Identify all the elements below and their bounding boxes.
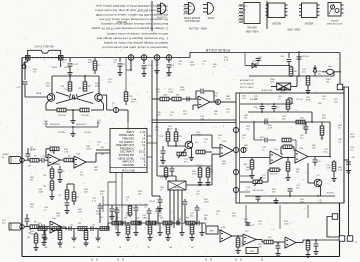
- wire link v3: [245, 205, 247, 226]
- diode D1: [252, 61, 256, 69]
- jack J2: [2, 220, 24, 230]
- svg-text:R22: R22: [160, 136, 163, 138]
- svg-text:R6: R6: [44, 186, 46, 188]
- resistor stub RBv12: [189, 223, 194, 241]
- capacitor C25: [288, 189, 293, 196]
- labels top inner: [250, 99, 321, 105]
- resistor R40: [286, 98, 293, 112]
- wire ic5 top pin: [157, 176, 176, 181]
- svg-text:2. Voltage for guidance measur: 2. Voltage for guidance measured with VT…: [91, 27, 168, 31]
- resistor R12: [57, 108, 67, 117]
- wire vert VB: [156, 60, 158, 176]
- svg-text:COLLECTOR: COLLECTOR: [182, 8, 195, 10]
- resistor RB6: [131, 221, 140, 225]
- svg-text:C54: C54: [178, 219, 181, 221]
- svg-text:R4: R4: [68, 156, 70, 158]
- wire power h2: [249, 75, 315, 77]
- footswitch SW1: [23, 47, 70, 70]
- svg-text:R101: R101: [326, 79, 332, 81]
- wire q1 collector: [51, 91, 53, 94]
- resistor RB10: [264, 237, 273, 244]
- resistor R13: [80, 108, 90, 117]
- variable resistor VR2 depth: [253, 177, 265, 192]
- capacitor C110: [41, 230, 46, 246]
- relay box RY: [277, 83, 291, 95]
- resistor R102: [282, 138, 296, 142]
- capacitor C24: [313, 157, 321, 167]
- svg-text:R109 470K: R109 470K: [76, 124, 86, 126]
- wire r14: [125, 57, 127, 90]
- wire chain out: [307, 239, 339, 241]
- wire below table h: [103, 196, 148, 212]
- capacitor C84: [187, 97, 192, 102]
- svg-text:R107: R107: [138, 191, 143, 193]
- connector node P5: [241, 147, 246, 152]
- wire ic7 out: [256, 240, 264, 243]
- svg-text:R11: R11: [88, 86, 91, 88]
- IC pinout SIP A8084: [238, 3, 260, 32]
- labels below table: [100, 191, 147, 209]
- resistor R21: [172, 95, 181, 101]
- svg-text:VIEW : GRN: VIEW : GRN: [287, 28, 300, 30]
- svg-text:.0056: .0056: [168, 92, 174, 94]
- svg-text:33K: 33K: [222, 164, 226, 166]
- ground stub GB4: [95, 229, 100, 242]
- svg-text:R108 470K: R108 470K: [50, 124, 60, 126]
- svg-text:R56: R56: [160, 218, 163, 220]
- svg-text:C93 10u: C93 10u: [58, 132, 65, 134]
- label output: [326, 193, 335, 195]
- svg-text:100K: 100K: [284, 224, 289, 226]
- wire power to border: [315, 72, 334, 76]
- wire ic4b out: [232, 235, 243, 237]
- svg-text:10K: 10K: [232, 216, 236, 218]
- wire table bottom leads: [108, 172, 122, 230]
- svg-text:22K: 22K: [84, 192, 88, 194]
- svg-text:R10: R10: [61, 86, 64, 88]
- svg-text:56K: 56K: [95, 86, 99, 88]
- svg-text:R59: R59: [268, 237, 271, 239]
- wire inner h2: [248, 111, 312, 113]
- svg-text:R54: R54: [124, 218, 127, 220]
- resistor RB11 vert: [305, 240, 310, 258]
- svg-text:100K: 100K: [86, 149, 91, 151]
- svg-text:C22 .02: C22 .02: [296, 99, 303, 101]
- resistor RB9: [186, 221, 195, 225]
- svg-text:56K: 56K: [46, 86, 50, 88]
- svg-text:INPUT 2: INPUT 2: [238, 8, 245, 10]
- ground stub GB5: [115, 223, 120, 236]
- pad border J4: [327, 214, 340, 237]
- capacitor C20: [254, 104, 265, 112]
- IC11 small box: [246, 248, 258, 254]
- wire mid h: [160, 165, 212, 167]
- svg-text:47K: 47K: [88, 62, 92, 64]
- svg-text:GND 3: GND 3: [238, 12, 244, 14]
- svg-text:DEPTH 50K: DEPTH 50K: [253, 190, 265, 192]
- wire q5 leads: [308, 163, 320, 196]
- svg-text:1M: 1M: [30, 180, 33, 182]
- op-amp IC2b: [220, 141, 233, 157]
- svg-text:100K: 100K: [166, 76, 171, 78]
- capacitor C5: [39, 156, 48, 163]
- svg-text:047: 047: [191, 247, 194, 249]
- capacitor CB3: [123, 221, 125, 226]
- wire v from h3: [254, 122, 330, 130]
- svg-text:R11A: R11A: [52, 66, 57, 69]
- wire bus step up: [190, 53, 340, 58]
- IC6 pin table: [110, 129, 147, 173]
- resistor R110 vert: [27, 232, 39, 251]
- resistor R1 drop: [93, 58, 100, 75]
- svg-text:R2: R2: [34, 156, 36, 158]
- resistor RB12 vert: [235, 236, 240, 254]
- resistor R105 vert: [128, 205, 132, 217]
- svg-text:R23: R23: [178, 136, 181, 138]
- svg-text:C11 4.7: C11 4.7: [78, 88, 84, 90]
- connector node TP1: [113, 107, 118, 112]
- svg-text:10K: 10K: [78, 212, 82, 214]
- page artifact marks: [92, 259, 262, 261]
- svg-text:AC ADAPTOR: AC ADAPTOR: [240, 79, 254, 82]
- capacitor CB4: [139, 221, 141, 226]
- svg-text:47K: 47K: [158, 216, 162, 218]
- svg-text:R9: R9: [34, 222, 36, 224]
- svg-text:2.2K: 2.2K: [44, 124, 49, 126]
- svg-text:EXT DC JACK: EXT DC JACK: [240, 86, 254, 89]
- inner box border: [236, 93, 344, 203]
- wire ic2a in: [182, 99, 198, 110]
- svg-text:BASE: BASE: [182, 12, 188, 15]
- capacitor CB7: [197, 221, 199, 226]
- wire inner h3: [240, 121, 330, 123]
- resistor R47 vert: [285, 158, 290, 181]
- component value labels: [30, 57, 355, 249]
- svg-text:C52: C52: [116, 218, 119, 220]
- resistor R9: [30, 222, 39, 229]
- capacitor C27: [160, 146, 165, 164]
- wire q2 out: [102, 95, 113, 110]
- view yellow label: [188, 27, 207, 30]
- wire ic1a out: [60, 159, 64, 161]
- wire ic1b out: [86, 153, 110, 162]
- wire double h2: [152, 122, 236, 124]
- svg-text:R13 10K: R13 10K: [81, 115, 89, 117]
- ground stub GB9: [157, 223, 162, 236]
- svg-text:R52: R52: [78, 223, 81, 225]
- wire ic2b out: [232, 150, 234, 152]
- resistor R7 vert: [59, 188, 70, 214]
- wire c28: [152, 195, 160, 197]
- wire double h1: [152, 119, 236, 121]
- transistor pinout 2SC945 bottom view: [182, 2, 200, 21]
- capacitor C28 el: [149, 196, 163, 212]
- svg-text:NOTES: NOTES: [117, 20, 127, 24]
- svg-text:M5218P: M5218P: [304, 22, 313, 24]
- svg-text:M 5 2 3 (B): M 5 2 3 (B): [122, 169, 135, 173]
- capacitor C40 vert: [280, 53, 291, 66]
- wire j1 out: [24, 148, 36, 160]
- svg-text:R12 10K: R12 10K: [58, 115, 66, 117]
- svg-text:C41 100: C41 100: [301, 56, 309, 58]
- svg-text:R46: R46: [244, 164, 247, 166]
- svg-text:1M: 1M: [28, 166, 31, 168]
- svg-text:470K: 470K: [306, 100, 311, 102]
- ground stub GB11: [179, 223, 184, 236]
- capacitor C90 vert: [109, 205, 114, 220]
- capacitor C26 fb: [196, 89, 214, 102]
- capacitor CB6: [177, 221, 179, 226]
- svg-text:NC 4: NC 4: [238, 15, 242, 17]
- svg-text:M5218P: M5218P: [272, 22, 281, 24]
- svg-text:4.7K: 4.7K: [224, 60, 229, 62]
- resistor R14 vert: [124, 90, 132, 105]
- svg-text:C50: C50: [70, 225, 73, 227]
- wire lfo feeds: [52, 76, 99, 94]
- capacitor C42: [279, 87, 287, 92]
- wire vert VA: [151, 60, 153, 196]
- wire lfo bottom left: [46, 101, 57, 110]
- wire opamp chain: [240, 157, 330, 159]
- op-amp IC1b: [74, 154, 86, 169]
- resistor stub RBv8: [147, 223, 152, 241]
- svg-text:TA7136: TA7136: [174, 186, 182, 189]
- transistor Q1: [47, 94, 55, 102]
- svg-text:4.7: 4.7: [73, 247, 76, 249]
- wire link v5: [307, 205, 309, 218]
- svg-text:2 IN: 2 IN: [155, 8, 159, 10]
- capacitor stub up CU0: [98, 203, 103, 223]
- pad right border J5: [337, 84, 343, 90]
- resistor R28 vert: [164, 166, 168, 180]
- capacitor CB9 vert: [313, 240, 318, 255]
- ground stub GB2: [71, 229, 76, 242]
- wire right border lower: [340, 87, 345, 257]
- capacitor stub up CU3: [147, 208, 152, 223]
- svg-text:10K: 10K: [156, 92, 160, 94]
- wire inner v right: [288, 98, 312, 122]
- resistor R24: [196, 150, 212, 154]
- op-amp IC9: [285, 237, 308, 248]
- wire lfo top rail: [52, 75, 99, 77]
- resistor RB8: [163, 221, 172, 225]
- wire inner misc1: [254, 130, 262, 140]
- IC10 box: [205, 223, 222, 234]
- capacitor C10 cross: [56, 89, 93, 104]
- svg-text:OUTPUT: OUTPUT: [326, 193, 335, 195]
- resistor stub RBv3: [83, 229, 88, 247]
- resistor R43: [296, 118, 305, 124]
- capacitor C2 drop: [117, 58, 125, 76]
- notes text block (rotated): [91, 4, 168, 50]
- wire chain to pads: [355, 242, 358, 244]
- capacitor C7: [39, 224, 47, 229]
- resistor R103 vert: [320, 122, 324, 140]
- svg-text:4.7K: 4.7K: [268, 128, 273, 130]
- wire top supply bus: [22, 57, 190, 59]
- wire link v4: [279, 205, 281, 229]
- label level: [351, 157, 354, 159]
- svg-text:R33: R33: [101, 147, 104, 149]
- svg-text:4.7K: 4.7K: [338, 170, 343, 172]
- capacitor C1 drop: [67, 58, 78, 76]
- svg-text:100K: 100K: [350, 137, 355, 139]
- svg-text:R7: R7: [59, 195, 61, 197]
- capacitor C86: [265, 138, 276, 143]
- svg-text:1M: 1M: [326, 82, 329, 84]
- svg-text:with no signal input, control: with no signal input, control at center …: [106, 32, 168, 36]
- pad output J7: [347, 235, 353, 241]
- svg-text:10K: 10K: [312, 148, 316, 150]
- wire lfo bottom right: [91, 101, 104, 110]
- svg-text:C24: C24: [317, 161, 320, 163]
- resistor R3 fb: [46, 147, 59, 158]
- resistor R6 vert: [44, 175, 55, 200]
- svg-text:10K: 10K: [160, 160, 164, 162]
- svg-text:033: 033: [147, 247, 150, 249]
- svg-text:22K: 22K: [300, 202, 304, 204]
- svg-text:R45 10K: R45 10K: [270, 174, 278, 176]
- svg-text:1u: 1u: [126, 200, 128, 202]
- svg-text:M5223L: M5223L: [330, 19, 339, 21]
- svg-text:C53: C53: [136, 218, 139, 220]
- op-amp IC2a: [198, 93, 210, 108]
- resistor R45: [268, 168, 281, 176]
- wire ic5 pins down: [170, 190, 182, 228]
- svg-text:IC5: IC5: [160, 177, 163, 179]
- resistor R104 vert: [331, 160, 336, 182]
- resistor R44 feedback: [281, 145, 295, 154]
- op-amp IC3b: [295, 148, 308, 163]
- resistor R60 vert: [289, 66, 297, 77]
- svg-text:C28 47: C28 47: [149, 201, 155, 203]
- svg-text:R21: R21: [176, 95, 179, 97]
- transistor Q2: [95, 94, 103, 102]
- pcb number label: [205, 48, 230, 52]
- transistor pinout 2S780 bottom view: [203, 2, 214, 18]
- wire right border upper: [339, 53, 341, 85]
- wire r20 left: [152, 98, 182, 100]
- capacitor stub up CU4: [156, 206, 161, 223]
- svg-text:GUITAR: GUITAR: [2, 153, 9, 156]
- svg-text:.0082: .0082: [38, 192, 44, 194]
- svg-text:EMITTER: EMITTER: [182, 4, 191, 6]
- LED indicator: [322, 66, 333, 74]
- label rate: [36, 92, 42, 95]
- svg-text:22K: 22K: [157, 115, 161, 117]
- svg-text:10K: 10K: [183, 114, 187, 116]
- svg-text:C91: C91: [126, 197, 129, 199]
- svg-text:1 GND: 1 GND: [155, 5, 162, 7]
- svg-text:47K: 47K: [244, 222, 248, 224]
- capacitor stub up CU2: [134, 205, 139, 223]
- svg-text:100K: 100K: [196, 135, 201, 137]
- svg-text:VIEW : YELLOW: VIEW : YELLOW: [188, 27, 207, 30]
- svg-text:R42: R42: [318, 103, 321, 105]
- wire ic2b in: [212, 148, 220, 160]
- rate pot: [17, 62, 48, 97]
- capacitor stub up CU1: [115, 207, 120, 223]
- wire inner right exit: [344, 160, 351, 174]
- capacitor CB1: [69, 226, 71, 231]
- op-amp IC4b: [220, 227, 232, 242]
- svg-text:TO-92 P/N: TO-92 P/N: [156, 16, 167, 18]
- svg-text:Improvement in circuit, parts: Improvement in circuit, parts and constr…: [102, 46, 168, 50]
- wire tp1 right: [119, 110, 128, 122]
- resistor RB2: [52, 227, 61, 231]
- variable resistor VR1: [177, 149, 186, 158]
- op-amp IC3a: [270, 149, 283, 164]
- svg-text:C51: C51: [92, 225, 95, 227]
- svg-text:R57: R57: [186, 218, 189, 220]
- svg-text:PCB-9C-010-1B: PCB-9C-010-1B: [205, 48, 230, 52]
- svg-text:GROUND: GROUND: [122, 163, 134, 167]
- svg-text:R50: R50: [38, 223, 41, 225]
- wire rb10 out: [273, 241, 285, 243]
- resistor stub RBv10: [165, 223, 170, 241]
- wire ic4a join: [47, 227, 66, 230]
- ground stub GB0: [42, 229, 47, 242]
- connector node CN1: [128, 55, 134, 61]
- svg-text:SW: SW: [27, 237, 30, 239]
- resistor R46 vert: [244, 158, 255, 179]
- svg-text:C12: C12: [17, 87, 20, 89]
- IC pinout DIP M5218P (IC4): [287, 3, 319, 30]
- resistor R20: [160, 95, 169, 101]
- capacitor C23: [264, 119, 267, 125]
- wire q3 base: [168, 145, 185, 147]
- svg-text:56K: 56K: [94, 170, 98, 172]
- svg-text:22K: 22K: [254, 99, 258, 101]
- svg-text:C57: C57: [251, 225, 254, 227]
- wire right border jog: [343, 87, 349, 235]
- resistor R27 vert: [197, 166, 202, 186]
- svg-text:2SC1815 GR,L: 2SC1815 GR,L: [183, 19, 199, 21]
- svg-text:C94 10u: C94 10u: [84, 132, 91, 134]
- wire q3 collector: [191, 135, 212, 148]
- svg-text:R53: R53: [100, 217, 103, 219]
- svg-text:4.7K: 4.7K: [192, 174, 197, 176]
- svg-text:56K: 56K: [322, 118, 326, 120]
- svg-text:R8: R8: [76, 197, 78, 199]
- svg-text:C23: C23: [264, 119, 267, 121]
- wire relay leads: [271, 76, 297, 87]
- op-amp IC7: [243, 231, 256, 245]
- svg-text:C10 4.7: C10 4.7: [64, 89, 71, 91]
- wire bottom border: [22, 256, 340, 258]
- wire left mid: [52, 164, 74, 190]
- svg-text:R106: R106: [100, 191, 105, 193]
- ground drop node: [154, 60, 159, 74]
- svg-text:LTS-4.5 TURN SW: LTS-4.5 TURN SW: [34, 47, 54, 49]
- svg-text:A 8084 (M): A 8084 (M): [262, 89, 273, 92]
- svg-text:100K: 100K: [180, 90, 185, 92]
- svg-text:DC 9V 300mW: DC 9V 300mW: [240, 84, 254, 86]
- resistor RB14 vert: [246, 222, 255, 227]
- wire ic2a out: [210, 101, 236, 103]
- svg-text:47K: 47K: [155, 130, 159, 132]
- connector node CN3: [154, 55, 160, 61]
- capacitor C21: [272, 104, 280, 112]
- labels bottom chain: [38, 217, 207, 227]
- resistor R5 vert: [50, 166, 54, 181]
- resistor RB4: [100, 227, 109, 231]
- resistor RB5: [112, 221, 121, 225]
- capacitor C87 vert: [304, 122, 309, 134]
- resistor R27b vert: [205, 166, 210, 186]
- capacitor C41: [297, 56, 310, 59]
- IC5 box: [168, 181, 186, 190]
